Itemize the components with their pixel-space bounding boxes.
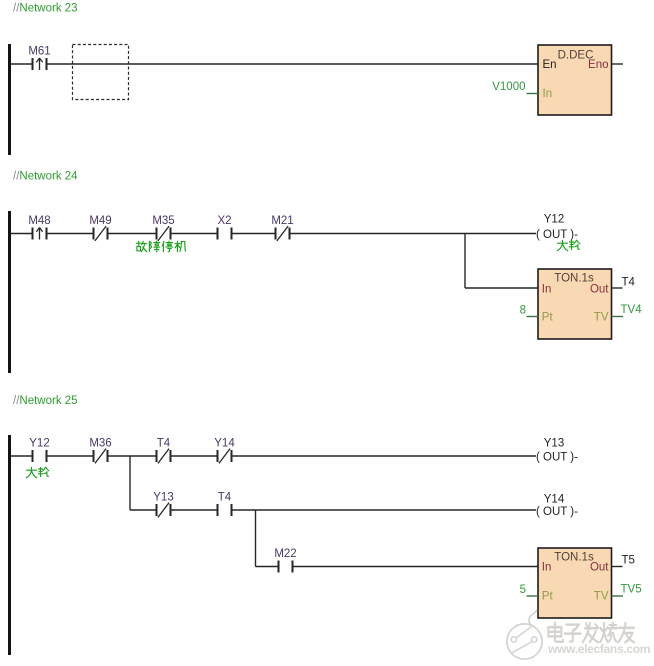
contact T4 NC row1	[156, 438, 172, 464]
annotation dalun under Y12 coil	[557, 240, 580, 251]
svg-text:Y14: Y14	[214, 438, 235, 450]
svg-text:X2: X2	[217, 215, 231, 227]
contact M36 NC	[89, 438, 111, 464]
network 24 left power rail	[8, 211, 11, 373]
svg-text:( OUT )-: ( OUT )-	[536, 229, 578, 241]
svg-text:M48: M48	[28, 215, 50, 227]
svg-text:Out: Out	[590, 562, 609, 574]
wire Y13 to T4 row2	[172, 509, 217, 511]
contact M21 NC	[271, 215, 293, 241]
svg-text://Network 23: //Network 23	[13, 3, 78, 15]
wire 8 to Pt	[527, 316, 539, 318]
svg-text:Y13: Y13	[544, 438, 564, 450]
svg-text://Network 25: //Network 25	[13, 395, 78, 407]
coil Y14 OUT	[536, 494, 578, 519]
wire V1000 to In	[527, 93, 539, 95]
svg-text:M22: M22	[274, 548, 296, 560]
contact M22 NO	[274, 548, 296, 573]
function block U3 TON.1s	[538, 548, 612, 618]
contact Y13 NC row2	[153, 492, 173, 518]
wire M22 to TON2 In	[294, 566, 539, 568]
contact M49 NC	[89, 215, 111, 241]
svg-text://Network 24: //Network 24	[13, 171, 78, 183]
wire M49 to M35	[109, 233, 156, 235]
contact T4 NO row2	[217, 492, 233, 517]
svg-text:M36: M36	[89, 438, 111, 450]
contact M61 rising edge	[28, 46, 50, 71]
coil Y13 OUT	[536, 438, 578, 464]
svg-text:Out: Out	[590, 284, 609, 296]
wire T4 to coil Y14	[233, 509, 537, 511]
svg-text:5: 5	[520, 584, 526, 596]
wire Y12 to M36	[48, 455, 93, 457]
coil Y12 OUT	[536, 214, 578, 242]
svg-text:( OUT )-: ( OUT )-	[536, 506, 578, 518]
svg-text:www.elecfans.com: www.elecfans.com	[547, 642, 650, 656]
wire 5 to Pt	[527, 595, 539, 597]
contact Y12 NO	[29, 438, 49, 463]
wire M35 to X2	[172, 233, 217, 235]
wire T4 to Y14	[172, 455, 217, 457]
wire M21 to coil Y12	[291, 233, 537, 235]
svg-text:M21: M21	[271, 215, 293, 227]
svg-text:TON.1s: TON.1s	[554, 273, 594, 285]
contact X2 NO	[217, 215, 233, 240]
branch wire down row2 to row3	[255, 510, 257, 567]
wire M61 to D.DEC En	[48, 63, 539, 65]
svg-text:Pt: Pt	[542, 312, 554, 324]
wire rail to M48	[11, 233, 32, 235]
contact M48 rising edge	[28, 215, 50, 240]
empty placeholder dashed box	[73, 45, 129, 100]
svg-text:En: En	[543, 59, 557, 71]
contact M35 NC	[152, 215, 174, 241]
network 23 left power rail	[8, 44, 11, 155]
function block U2 TON.1s	[538, 269, 612, 339]
svg-text:8: 8	[520, 305, 526, 317]
svg-text:TV: TV	[594, 312, 609, 324]
wire TV stub row3	[612, 595, 624, 597]
svg-text:TV5: TV5	[621, 584, 642, 596]
svg-text:( OUT )-: ( OUT )-	[536, 452, 578, 464]
contact Y14 NC	[214, 438, 235, 464]
svg-text:T4: T4	[218, 492, 232, 504]
svg-text:M35: M35	[152, 215, 174, 227]
wire M36 to T4 with branch node	[109, 455, 156, 457]
function block U1 D.DEC	[538, 45, 612, 115]
svg-text:M49: M49	[89, 215, 111, 227]
wire rail to Y12 contact	[11, 455, 32, 457]
wire X2 to M21	[233, 233, 275, 235]
network 25 left power rail	[8, 435, 11, 655]
svg-text:TON.1s: TON.1s	[554, 552, 594, 564]
svg-text:T4: T4	[157, 438, 171, 450]
svg-text:T5: T5	[622, 555, 635, 567]
svg-text:TV4: TV4	[621, 304, 643, 316]
branch wire down row1 to row2	[129, 456, 131, 510]
wire Y14 to coil Y13	[233, 455, 537, 457]
branch wire down to TON1	[464, 234, 466, 289]
svg-text:Y14: Y14	[544, 494, 565, 506]
watermark elecfans logo circle	[507, 624, 542, 659]
wire Out stub to T4	[612, 287, 623, 289]
svg-text:T4: T4	[622, 277, 636, 289]
svg-text:TV: TV	[594, 591, 609, 603]
wire Eno output stub	[612, 63, 624, 65]
svg-text:In: In	[542, 562, 552, 574]
wire branch to Y13 contact	[130, 509, 156, 511]
wire Out stub to T5	[612, 566, 623, 568]
annotation guzhangtingji	[136, 241, 185, 252]
svg-text:Y12: Y12	[29, 438, 49, 450]
svg-text:Y12: Y12	[544, 214, 564, 226]
wire M48 to M49	[48, 233, 93, 235]
svg-text:M61: M61	[28, 46, 50, 58]
wire branch to M22	[256, 566, 278, 568]
svg-text:In: In	[543, 88, 553, 100]
svg-text:V1000: V1000	[492, 81, 525, 93]
svg-text:In: In	[542, 284, 552, 296]
svg-text:Eno: Eno	[588, 59, 608, 71]
svg-text:Pt: Pt	[542, 591, 554, 603]
wire TV stub	[612, 316, 624, 318]
wire rail to M61	[11, 63, 32, 65]
annotation dalun under Y12 contact	[26, 467, 49, 478]
svg-text:Y13: Y13	[153, 492, 173, 504]
